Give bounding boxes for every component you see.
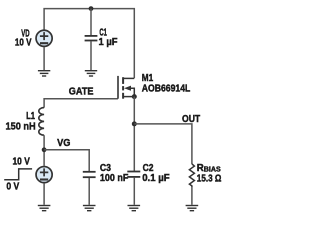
wire M1 source down to C2	[133, 97, 135, 171]
svg-text:GATE: GATE	[69, 86, 94, 97]
svg-text:150 nH: 150 nH	[6, 122, 36, 133]
mosfet body arrow	[124, 86, 131, 91]
voltage source VD	[36, 30, 52, 46]
svg-text:R: R	[197, 163, 204, 174]
wire GATE net	[44, 99, 118, 108]
svg-text:10 V: 10 V	[13, 156, 31, 167]
capacitor C2	[127, 172, 140, 177]
wire top rail from VD to M1 drain	[44, 9, 134, 79]
node VG	[42, 147, 47, 152]
ground below VD	[38, 71, 50, 76]
capacitor C1	[85, 36, 98, 41]
resistor RBIAS	[189, 164, 194, 187]
wire C1 to ground	[90, 41, 92, 70]
wire C1 branch down	[90, 9, 92, 36]
svg-text:15.3 Ω: 15.3 Ω	[197, 173, 222, 184]
svg-text:1 µF: 1 µF	[99, 37, 118, 48]
ground below C1	[85, 71, 97, 76]
pulse source VG	[36, 167, 52, 183]
svg-text:0 V: 0 V	[6, 181, 19, 192]
wire VD to ground	[43, 47, 45, 70]
node junction top rail to C1	[89, 6, 94, 11]
svg-text:10 V: 10 V	[15, 38, 32, 49]
ground below C3	[83, 206, 96, 211]
wire C3 to ground	[88, 178, 90, 205]
node OUT junction	[132, 121, 137, 126]
ground below pulse source	[38, 206, 51, 211]
wire RBIAS to ground	[191, 187, 193, 205]
ground below RBIAS	[186, 206, 199, 211]
svg-text:L1: L1	[26, 111, 35, 122]
mosfet M1	[118, 76, 134, 99]
wire C2 to ground	[133, 178, 135, 205]
inductor L1	[39, 108, 44, 136]
svg-text:VG: VG	[57, 138, 71, 149]
wire pulse source to ground	[43, 183, 45, 205]
wire VG to C3	[44, 150, 89, 171]
capacitor C3	[83, 172, 96, 177]
ground below C2	[128, 206, 141, 211]
svg-text:0.1 µF: 0.1 µF	[142, 173, 170, 184]
svg-text:BIAS: BIAS	[204, 166, 221, 174]
wire L1 to VG node	[43, 135, 45, 166]
svg-text:100 nF: 100 nF	[100, 173, 129, 184]
svg-text:AOB66914L: AOB66914L	[142, 83, 191, 94]
wire OUT to RBIAS	[134, 124, 192, 164]
node M1 source junction	[132, 94, 137, 99]
step waveform symbol	[4, 169, 32, 180]
